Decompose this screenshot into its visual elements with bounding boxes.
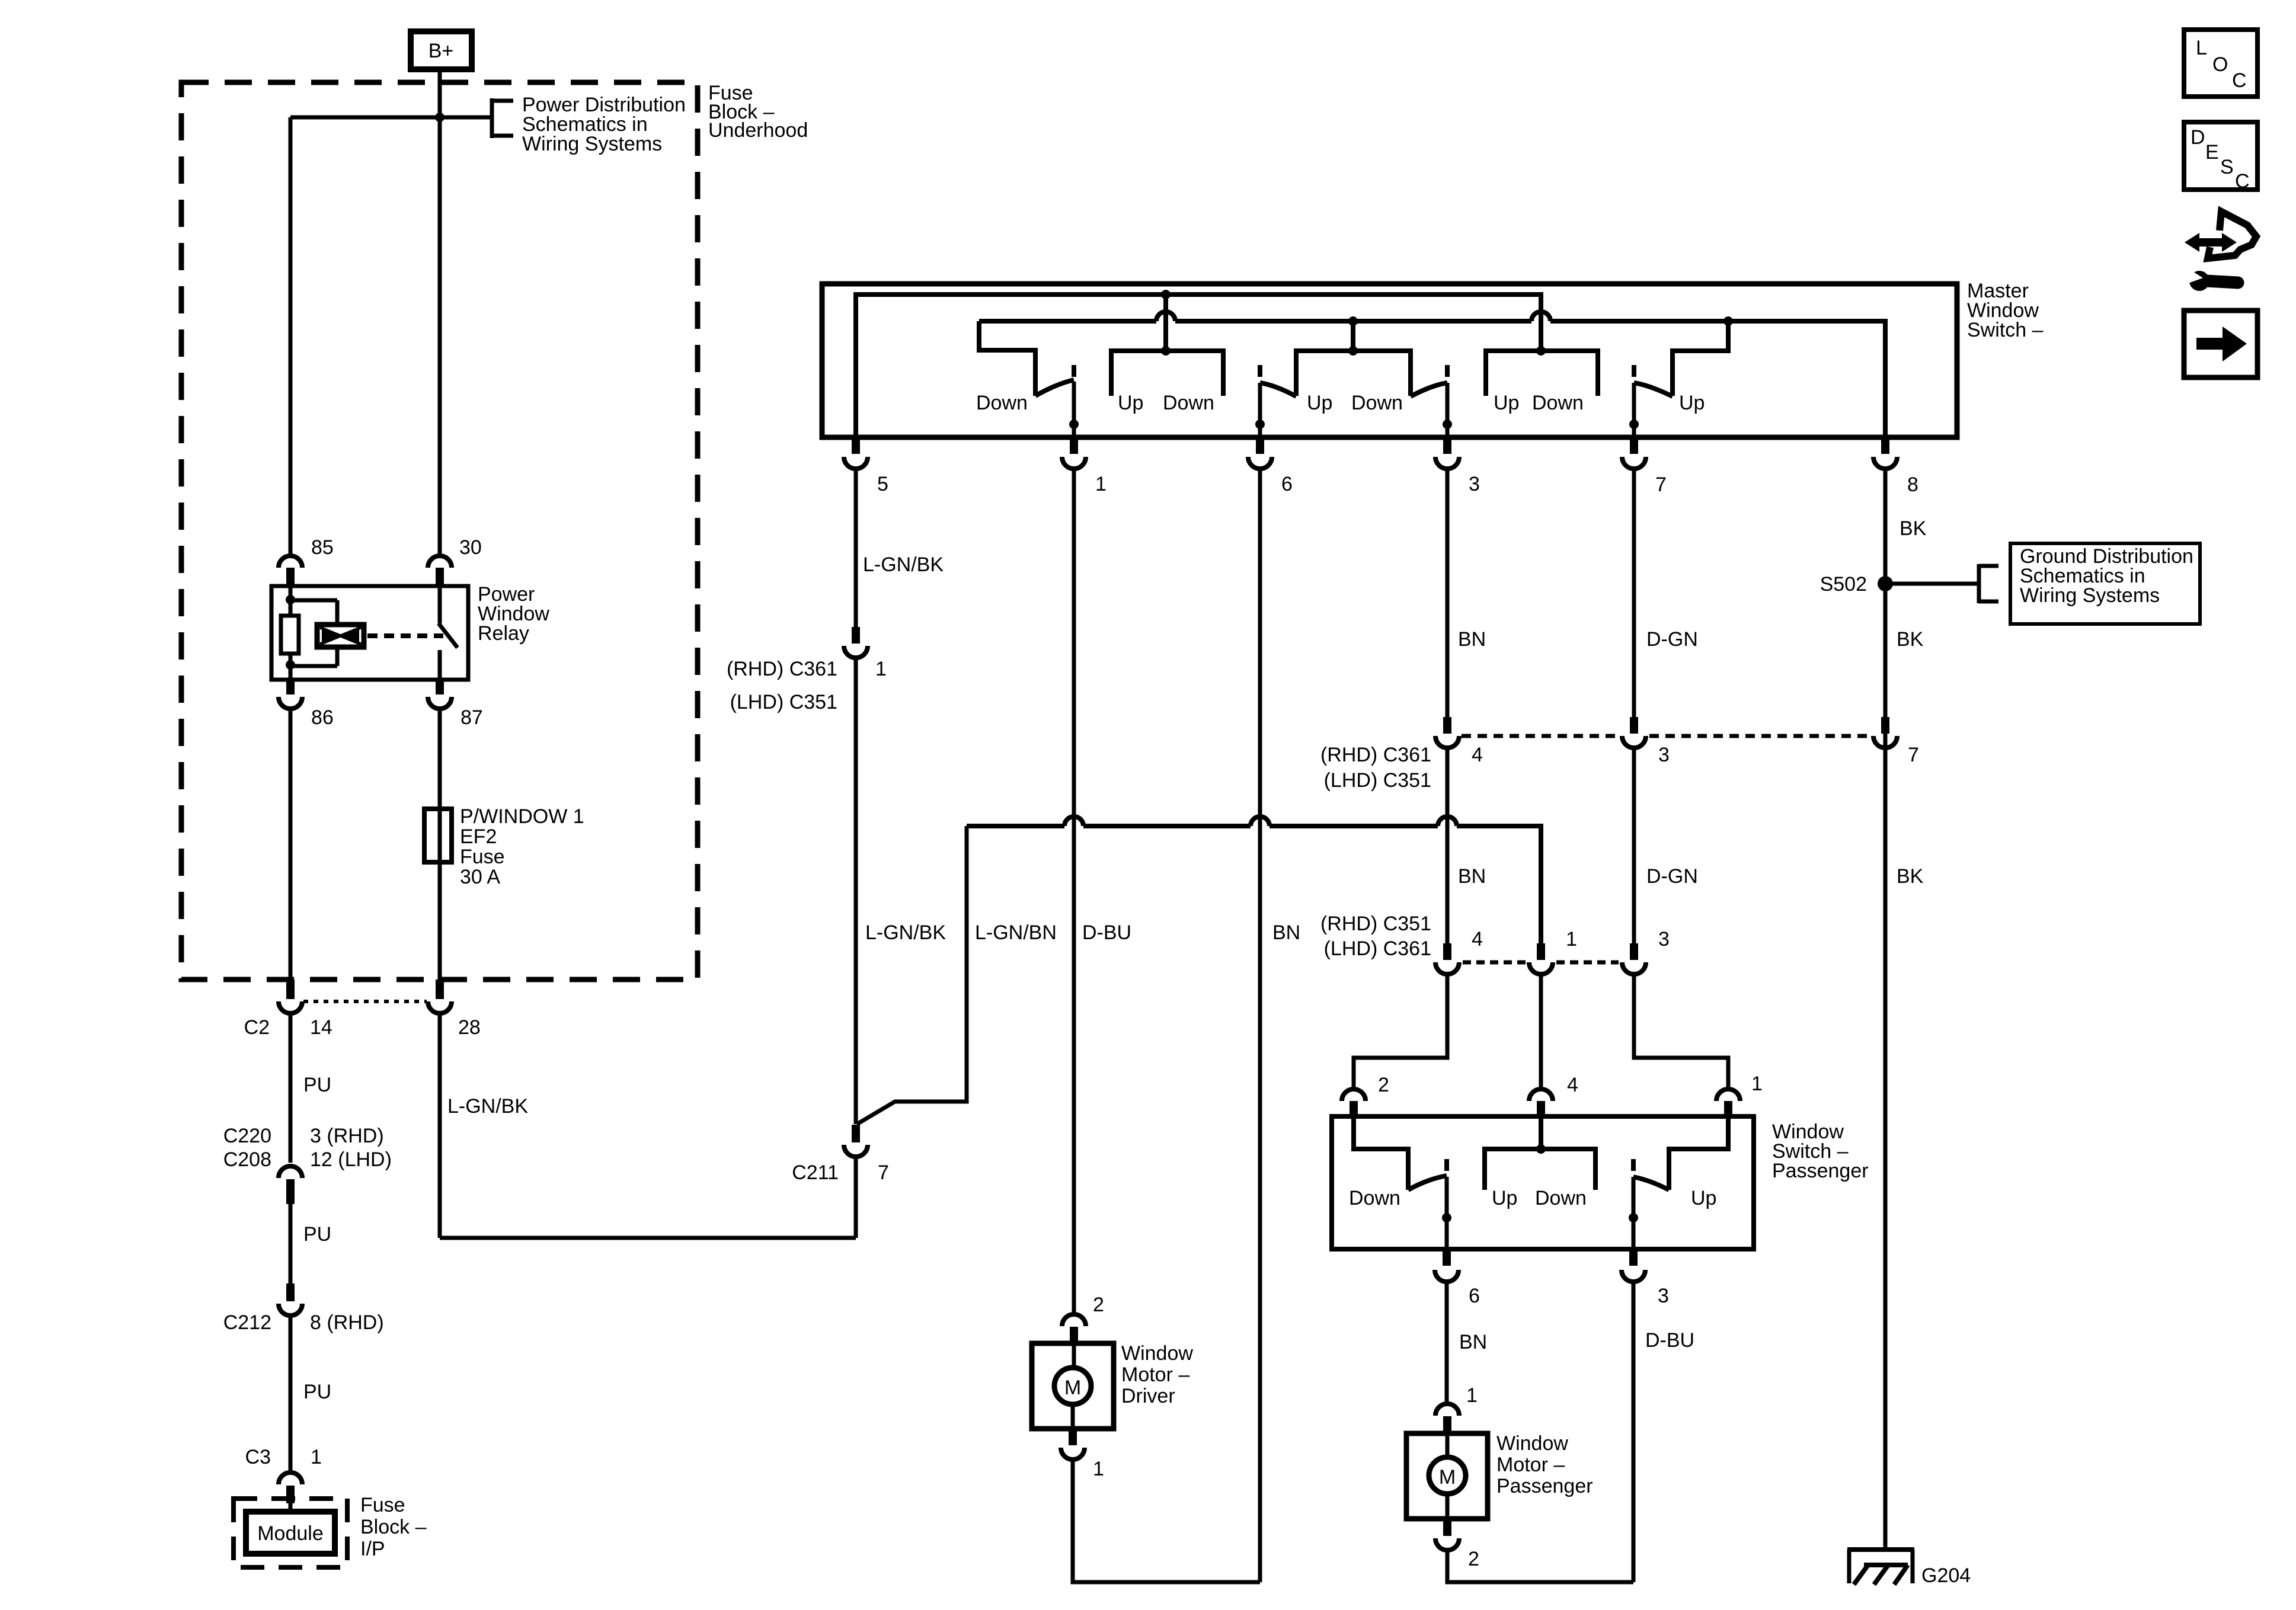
connector C3 pin 1 [279, 1473, 302, 1503]
labels Down/Up passenger switch [1349, 1187, 1716, 1209]
svg-text:2: 2 [1093, 1294, 1104, 1316]
svg-text:L: L [2196, 37, 2207, 59]
svg-text:C208: C208 [223, 1148, 271, 1171]
connector master switch pin 5 [844, 437, 868, 469]
wire pin 8 BK down to ground [1884, 469, 1888, 1550]
fuse block I/P dashed box [234, 1499, 347, 1567]
svg-text:M: M [1064, 1377, 1081, 1399]
svg-text:L-GN/BK: L-GN/BK [863, 553, 944, 576]
module box [246, 1512, 335, 1554]
label: Power Distribution Schematics in Wiring Systems [522, 94, 686, 155]
node ground bus to pair 2 [1348, 316, 1358, 326]
passenger switch center contact pair bracket [1485, 1149, 1595, 1190]
connector C361/C351 pin 1 on L-GN/BK [844, 627, 868, 658]
wire pin 86 down to C2-14 [289, 709, 293, 981]
pin number labels under master switch [877, 473, 1918, 496]
window motor passenger [1406, 1404, 1488, 1550]
svg-text:Underhood: Underhood [708, 119, 808, 142]
svg-text:I/P: I/P [360, 1538, 385, 1560]
svg-text:(LHD) C351: (LHD) C351 [730, 691, 837, 713]
svg-text:14: 14 [310, 1016, 332, 1039]
svg-text:C: C [2232, 69, 2247, 92]
svg-text:L-GN/BK: L-GN/BK [447, 1095, 528, 1118]
master window switch box [822, 284, 1957, 437]
wire B+ feed down to relay pin 30 [438, 72, 442, 555]
icon box LOC [2184, 30, 2257, 97]
svg-text:Up: Up [1679, 392, 1705, 414]
wire internal ground bus with hops [979, 312, 1885, 437]
svg-text:28: 28 [458, 1016, 481, 1039]
svg-text:1: 1 [1751, 1073, 1763, 1095]
switch 4 (pin 7) [1629, 365, 1673, 437]
svg-text:PU: PU [303, 1223, 331, 1246]
wire horizontal L-GN/BN bus with hops [967, 817, 1541, 943]
window switch passenger box [1332, 1116, 1754, 1249]
svg-text:Fuse: Fuse [460, 846, 505, 868]
wire left branch down to relay pin 85 [289, 117, 293, 555]
svg-text:C211: C211 [792, 1161, 839, 1184]
label: Fuse Block - Underhood [708, 82, 808, 142]
svg-text:O: O [2212, 53, 2228, 76]
svg-text:Passenger: Passenger [1496, 1475, 1593, 1497]
svg-text:5: 5 [877, 473, 888, 495]
svg-text:BK: BK [1897, 628, 1924, 651]
wire D-BU passenger switch 3 down [1632, 1282, 1636, 1582]
svg-text:M: M [1439, 1466, 1456, 1489]
svg-text:EF2: EF2 [460, 825, 497, 848]
svg-text:BN: BN [1459, 1331, 1487, 1353]
svg-text:7: 7 [878, 1161, 889, 1184]
connector master switch pin 8 [1873, 437, 1897, 469]
wire L-GN/BK from C2-28 down and right to C211 [440, 1013, 856, 1238]
svg-text:Down: Down [1351, 392, 1403, 414]
connector passenger switch pin 3 [1622, 1249, 1645, 1282]
svg-text:7: 7 [1908, 744, 1919, 766]
svg-text:Driver: Driver [1121, 1385, 1175, 1407]
svg-text:4: 4 [1472, 744, 1483, 766]
feed from pin 4 [1539, 1116, 1543, 1149]
connector C361/C351 pin 4 (row 1) [1435, 717, 1459, 748]
svg-text:BK: BK [1900, 517, 1927, 540]
svg-text:C2: C2 [244, 1016, 270, 1039]
passenger switch 1 (pin 6 rocker) [1408, 1159, 1451, 1249]
relay coil junction dots [286, 595, 295, 604]
svg-text:Passenger: Passenger [1772, 1160, 1869, 1182]
splice S502 [1878, 576, 1893, 591]
wire pin 5 L-GN/BK down [854, 469, 858, 627]
contact pair 2 bracket [1296, 351, 1411, 396]
svg-text:Window: Window [1496, 1432, 1568, 1455]
connector C2 pin 28 [428, 980, 452, 1013]
connector C351/C361 pin 4 (row 2) [1435, 943, 1459, 974]
wire L-GN/BN branch from bus down to C211 [857, 826, 967, 1124]
relay coil (box with bowtie) [317, 625, 364, 647]
svg-text:G204: G204 [1921, 1564, 1971, 1587]
wire L-GN/BN to passenger switch pin 4 [1539, 974, 1543, 1089]
svg-text:Down: Down [1349, 1187, 1400, 1209]
svg-text:Down: Down [1535, 1187, 1587, 1209]
relay switch contact [439, 586, 458, 680]
fuse block underhood dashed box [181, 82, 698, 980]
svg-text:S: S [2220, 156, 2234, 178]
svg-text:Down: Down [1163, 392, 1214, 414]
wire pin 7 D-GN down [1632, 469, 1636, 718]
svg-text:C220: C220 [223, 1125, 271, 1147]
node on feed bus [1161, 290, 1171, 299]
svg-text:87: 87 [461, 706, 483, 729]
svg-text:S502: S502 [1820, 573, 1867, 596]
connector C351/C361 pin 1 (row 2, L-GN/BN) [1529, 943, 1553, 974]
wire into module [289, 1503, 293, 1513]
svg-text:BN: BN [1272, 921, 1300, 944]
label: Master Window Switch - [1967, 280, 2044, 341]
svg-text:(RHD) C351: (RHD) C351 [1320, 913, 1431, 935]
connector passenger switch pin 2 [1342, 1089, 1366, 1118]
row 2 labels [1320, 913, 1670, 960]
connector passenger switch pin 4 [1529, 1089, 1553, 1118]
wire D-GN to passenger switch pin 1 [1634, 974, 1728, 1089]
wire internal bus from pin 5 feed [856, 295, 1541, 437]
connector master switch pin 1 [1062, 437, 1086, 469]
wire pin 87 down through fuse to C2-28 [438, 709, 442, 981]
label C220 / C208 [223, 1125, 392, 1171]
svg-text:C212: C212 [223, 1311, 271, 1334]
svg-text:3: 3 [1658, 928, 1670, 950]
svg-text:1: 1 [1093, 1458, 1104, 1480]
svg-text:Window: Window [1121, 1342, 1193, 1365]
wire pin 6 BN down to driver motor return [1258, 469, 1262, 1582]
wire passenger motor return loop [1447, 1550, 1633, 1582]
svg-text:D-BU: D-BU [1082, 921, 1131, 944]
connector passenger switch pin 1 [1716, 1089, 1740, 1118]
svg-text:B+: B+ [428, 40, 454, 62]
relay resistor element [281, 616, 299, 654]
svg-text:3: 3 [1658, 744, 1670, 766]
svg-text:1: 1 [1095, 473, 1107, 495]
wire D-GN between rows [1632, 748, 1636, 945]
connector C220/C208 [279, 1166, 302, 1204]
svg-text:P/WINDOW 1: P/WINDOW 1 [460, 805, 584, 828]
svg-text:L-GN/BK: L-GN/BK [865, 921, 946, 944]
row 1 labels [1320, 744, 1919, 792]
svg-text:BN: BN [1458, 865, 1486, 888]
contact pair 1 bracket [1111, 351, 1223, 396]
relay actuating dashed link [367, 633, 443, 638]
window motor driver [1032, 1314, 1114, 1459]
wire S502 to reference bracket [1885, 582, 1979, 586]
svg-text:L-GN/BN: L-GN/BN [975, 921, 1057, 944]
connector C361/C351 pin 7 (row 1, BK) [1873, 717, 1897, 748]
svg-text:4: 4 [1567, 1074, 1578, 1096]
wire pin 3 BN down [1446, 469, 1450, 718]
node: B+ distribution junction [435, 113, 445, 122]
connector master switch pin 3 [1435, 437, 1459, 469]
dashed connector row 2 line [1463, 961, 1619, 965]
svg-text:1: 1 [311, 1446, 322, 1468]
svg-text:30 A: 30 A [460, 866, 500, 888]
svg-text:12 (LHD): 12 (LHD) [310, 1148, 392, 1171]
svg-text:Switch –: Switch – [1967, 319, 2044, 341]
svg-text:8 (RHD): 8 (RHD) [310, 1311, 384, 1334]
connector pin 85 (relay) [279, 556, 302, 585]
wire PU segment C212 to C3 [289, 1315, 293, 1473]
connector pin 86 (relay) [279, 680, 302, 709]
connector C2 pin 14 [279, 980, 302, 1013]
wire C211 down to relay feed corner [854, 1157, 858, 1238]
svg-text:2: 2 [1378, 1074, 1389, 1096]
power node B+ [411, 31, 472, 69]
svg-text:PU: PU [303, 1074, 331, 1096]
dashed connector row 1 line [1462, 734, 1870, 738]
label: Window Motor - Driver [1121, 1342, 1193, 1407]
svg-text:3 (RHD): 3 (RHD) [310, 1125, 384, 1147]
svg-text:Wiring Systems: Wiring Systems [2020, 584, 2160, 607]
wire BN to passenger switch pin 2 [1354, 974, 1447, 1089]
svg-text:3: 3 [1469, 473, 1480, 495]
svg-text:6: 6 [1469, 1285, 1480, 1307]
ground distribution reference box [2010, 543, 2200, 624]
svg-text:C: C [2235, 170, 2250, 193]
svg-text:(LHD) C351: (LHD) C351 [1324, 769, 1431, 792]
ground G204 [1847, 1550, 1914, 1585]
svg-text:Up: Up [1494, 392, 1519, 414]
node ground bus to switch 4 contact [1723, 316, 1733, 326]
svg-text:85: 85 [311, 536, 334, 559]
connector master switch pin 7 [1622, 437, 1646, 469]
relay coil branch wiring [290, 586, 337, 680]
svg-text:1: 1 [1466, 1384, 1478, 1407]
svg-text:1: 1 [875, 658, 887, 680]
connector passenger switch pin 6 [1435, 1249, 1459, 1282]
connector master switch pin 6 [1248, 437, 1272, 469]
svg-text:30: 30 [459, 536, 482, 559]
wire pin 1 D-BU down to driver motor [1072, 469, 1076, 1314]
wire branch to relay pin 85 [290, 116, 492, 120]
svg-text:Module: Module [257, 1522, 324, 1545]
svg-text:1: 1 [1566, 928, 1577, 950]
svg-text:8: 8 [1907, 473, 1918, 496]
svg-text:Fuse: Fuse [360, 1494, 405, 1516]
svg-text:Wiring Systems: Wiring Systems [522, 133, 662, 155]
svg-text:Up: Up [1492, 1187, 1517, 1209]
connector C361/C351 pin 3 (row 1) [1622, 717, 1646, 748]
wire feed drop to pair 1 bracket [1163, 295, 1168, 351]
svg-text:Block –: Block – [360, 1516, 427, 1538]
wire PU segment C208 to C212 [289, 1204, 293, 1283]
svg-text:Up: Up [1691, 1187, 1716, 1209]
svg-text:BK: BK [1897, 865, 1924, 888]
labels Down/Up inside master switch [976, 392, 1705, 414]
svg-text:Down: Down [976, 392, 1028, 414]
wire PU segment C2-14 to C220 [289, 1013, 293, 1163]
svg-text:BN: BN [1458, 628, 1486, 651]
svg-text:6: 6 [1281, 473, 1293, 495]
svg-text:PU: PU [303, 1381, 331, 1403]
svg-text:86: 86 [311, 706, 334, 729]
connector pin 30 (relay) [428, 556, 452, 585]
svg-text:D-BU: D-BU [1645, 1329, 1694, 1352]
svg-text:Down: Down [1532, 392, 1584, 414]
wire driver motor return loop [1073, 1459, 1260, 1582]
label: Window Switch - Passenger [1772, 1121, 1869, 1182]
label: Fuse Block - I/P [360, 1494, 427, 1560]
label: fuse P/WINDOW 1 EF2 Fuse 30 A [460, 805, 584, 888]
switch 1 (master driver rocker, pin 1) [1035, 365, 1079, 437]
connector C211 pin 7 [844, 1125, 868, 1157]
switch 3 (pin 3) [1411, 365, 1452, 437]
passenger switch pin 1 feed to up contact [1669, 1116, 1728, 1190]
label: Power Window Relay [478, 583, 549, 645]
wire BN between rows [1446, 748, 1450, 945]
icon box arrow [2184, 311, 2257, 377]
fuse EF2 P/WINDOW 1 30A [424, 809, 452, 862]
switch 4 up contact [1673, 321, 1728, 396]
svg-text:3: 3 [1658, 1285, 1669, 1307]
svg-text:D: D [2191, 126, 2205, 149]
label (RHD) C361 / (LHD) C351 [727, 658, 837, 713]
svg-text:Motor –: Motor – [1121, 1363, 1189, 1386]
label: Window Motor - Passenger [1496, 1432, 1593, 1497]
svg-text:(RHD) C361: (RHD) C361 [727, 658, 837, 680]
svg-text:4: 4 [1472, 928, 1483, 950]
svg-text:D-GN: D-GN [1646, 628, 1698, 651]
icon box DESC [2184, 122, 2257, 193]
connector pin 87 (relay) [428, 680, 452, 709]
connector C351/C361 pin 3 (row 2) [1622, 943, 1646, 974]
svg-text:E: E [2205, 141, 2219, 164]
wire BN passenger switch 6 to motor [1445, 1282, 1449, 1404]
svg-text:Up: Up [1307, 392, 1332, 414]
svg-text:C3: C3 [245, 1446, 271, 1468]
switch 2 (pin 6) [1255, 365, 1296, 437]
svg-text:Relay: Relay [478, 622, 529, 645]
svg-text:Motor –: Motor – [1496, 1454, 1565, 1476]
svg-text:(RHD) C361: (RHD) C361 [1320, 744, 1431, 766]
passenger switch pin 2 feed to down contact [1354, 1116, 1408, 1190]
connector C212 [279, 1283, 302, 1315]
off-page reference bracket: Ground Distribution [1979, 564, 1998, 603]
icon wrench and arrows [2185, 212, 2256, 291]
contact pair 3 bracket [1486, 351, 1598, 396]
wire L-GN/BK to C211 [854, 658, 858, 1124]
off-page reference bracket: Power Distribution [492, 98, 513, 138]
svg-text:2: 2 [1468, 1548, 1479, 1570]
svg-text:7: 7 [1655, 473, 1667, 496]
svg-text:Up: Up [1118, 392, 1143, 414]
svg-text:D-GN: D-GN [1646, 865, 1698, 888]
connector C2 dotted pairing line [303, 1000, 427, 1003]
passenger switch 2 (pin 3 rocker) [1629, 1159, 1669, 1249]
svg-text:(LHD) C361: (LHD) C361 [1324, 937, 1431, 960]
relay K: Power Window Relay box [271, 586, 468, 680]
